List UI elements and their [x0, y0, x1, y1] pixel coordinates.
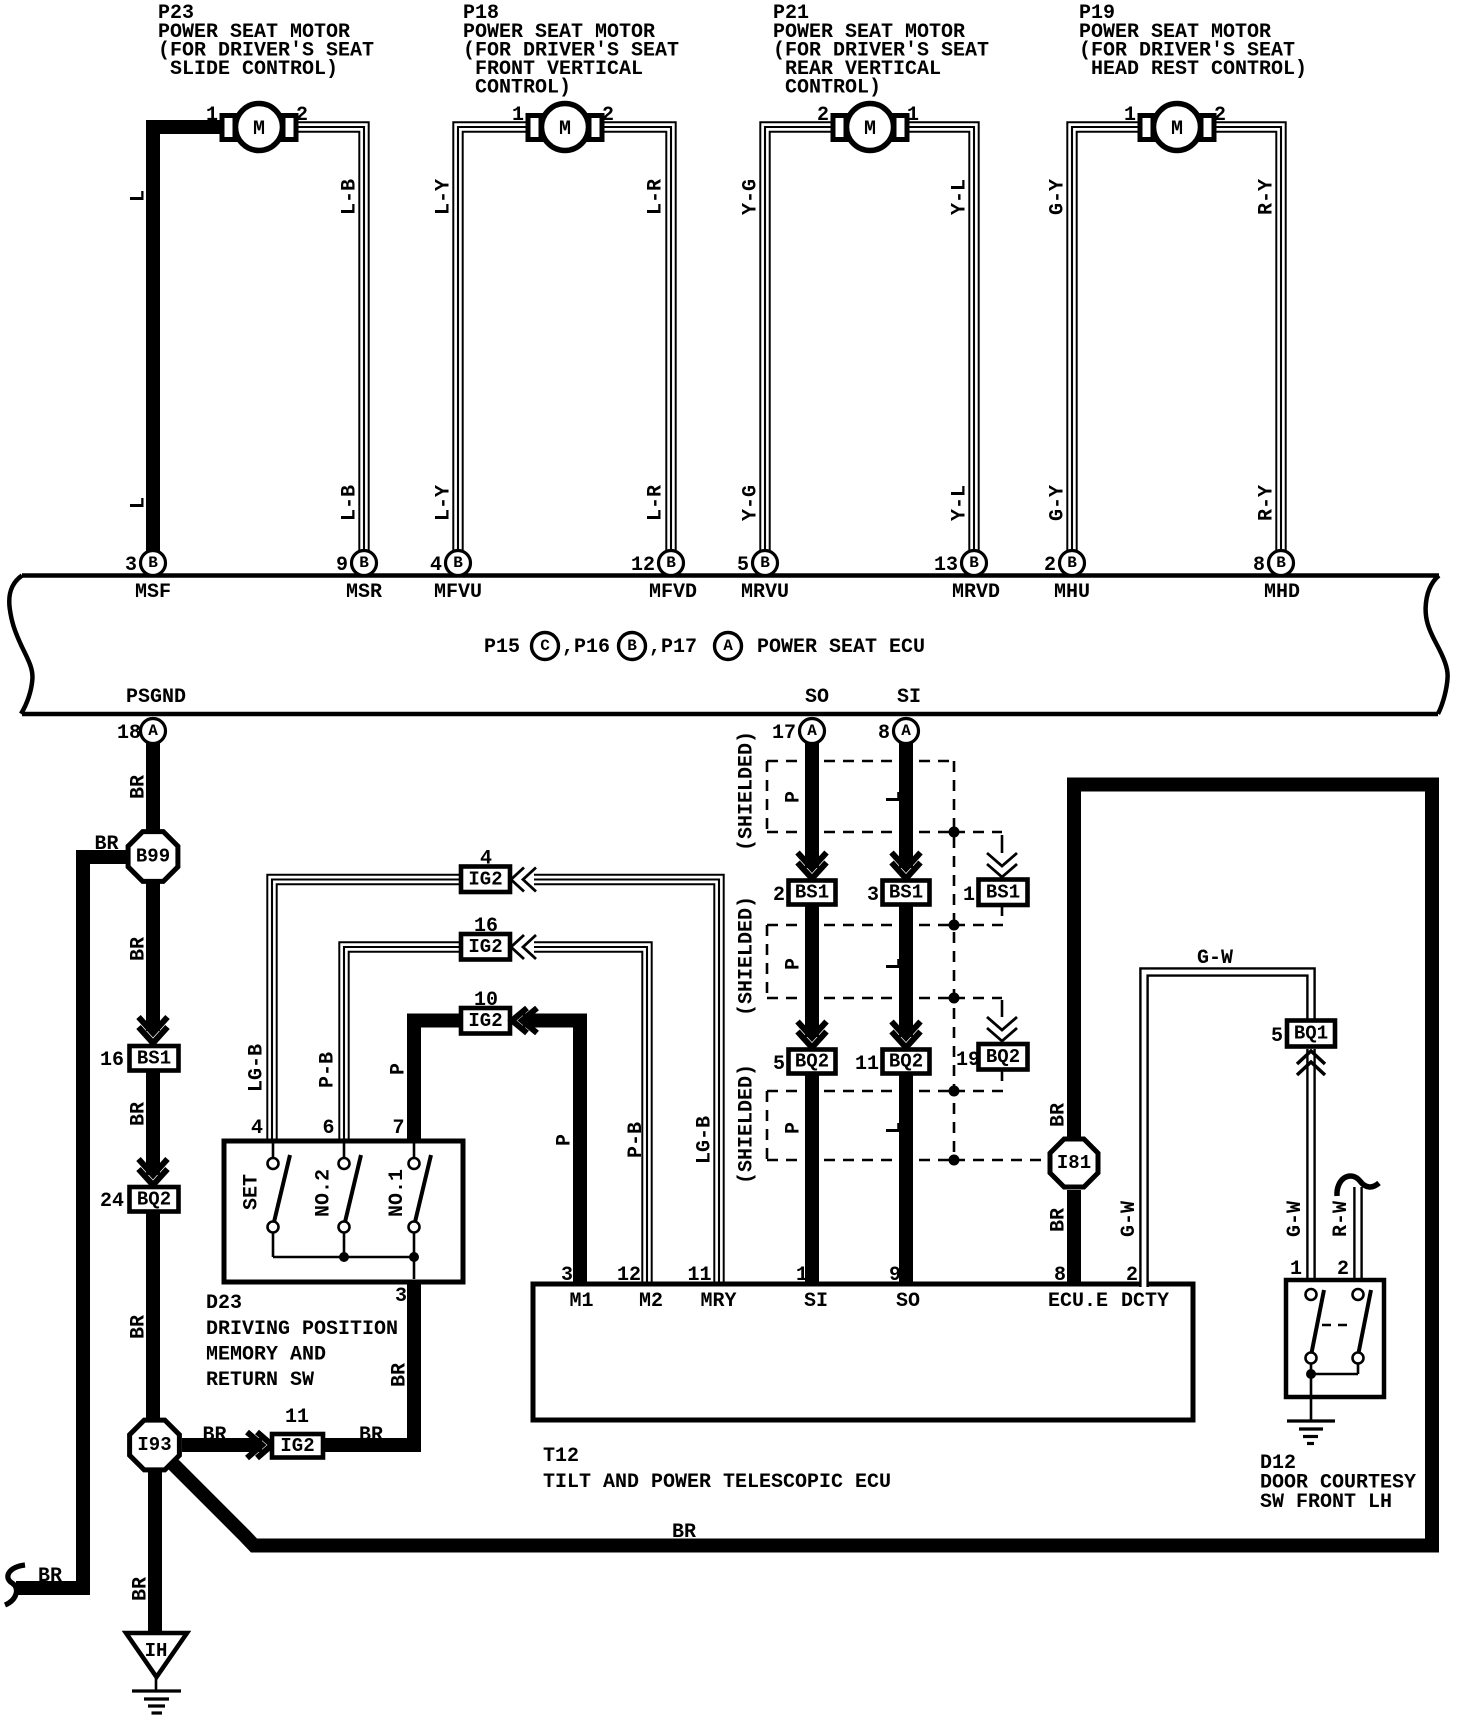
ECU pin 12 MFVD [631, 551, 697, 605]
svg-text:17: 17 [772, 722, 796, 745]
svg-text:5: 5 [1271, 1025, 1283, 1048]
label G-W left [1118, 1201, 1141, 1237]
svg-text:MEMORY AND: MEMORY AND [206, 1344, 326, 1367]
D23 box [224, 1141, 463, 1282]
svg-text:12: 12 [631, 554, 655, 577]
svg-text:BR: BR [130, 1577, 153, 1601]
svg-text:M: M [1171, 118, 1183, 141]
arrow down to BS1-16 [139, 1017, 168, 1043]
svg-text:BQ2: BQ2 [986, 1046, 1020, 1068]
svg-text:2: 2 [1214, 104, 1226, 127]
svg-text:PSGND: PSGND [126, 686, 186, 709]
motor P21 symbol [833, 104, 907, 151]
label BR below I81 [1048, 1208, 1071, 1232]
svg-text:BR: BR [128, 1102, 151, 1126]
svg-text:BR: BR [128, 937, 151, 961]
T12 pin labels [569, 1290, 1169, 1313]
label SHIELDED 1 [736, 731, 759, 851]
wire BR main loop (I93 to I81) [170, 785, 1432, 1546]
svg-text:M: M [864, 118, 876, 141]
wire P-B IG2-16 to D23 pin 6 and T12 M2 [344, 947, 647, 1287]
svg-text:B: B [1276, 554, 1286, 572]
svg-text:SLIDE CONTROL): SLIDE CONTROL) [170, 58, 338, 81]
svg-text:1: 1 [1124, 104, 1136, 127]
label P19 header [1079, 2, 1307, 81]
connector 10 IG2 [461, 989, 510, 1034]
svg-text:R-W: R-W [1330, 1201, 1353, 1237]
label D12 block [1260, 1452, 1416, 1514]
connector 24 BQ2 [100, 1187, 179, 1213]
svg-text:G-W: G-W [1284, 1201, 1307, 1237]
svg-text:1: 1 [206, 104, 218, 127]
label BR 1 [128, 775, 151, 799]
shield dashed line to I81 ground [954, 1159, 1048, 1162]
shield stub dash at y925 [954, 924, 1004, 927]
label BR left of IG2-11 [202, 1424, 226, 1447]
svg-text:SO: SO [896, 1290, 920, 1313]
ECU bottom edge [22, 712, 1438, 717]
arrow down SI to BQ2-11 [892, 1022, 921, 1048]
svg-text:P: P [388, 1063, 411, 1075]
ECU wavy left edge [9, 576, 32, 714]
wire Y-L from motor P21 pin 1 [903, 127, 974, 552]
svg-text:BS1: BS1 [889, 882, 923, 904]
label R-W [1330, 1201, 1353, 1237]
label L-R upper [645, 179, 668, 215]
shield stub dash at y1091 [954, 1090, 1004, 1093]
svg-text:L: L [884, 791, 907, 803]
D23 switch common bus [273, 1257, 414, 1279]
svg-text:IG2: IG2 [468, 1010, 502, 1032]
pin 2 label motor P21 [817, 104, 829, 127]
shield junction dot A [949, 827, 960, 838]
label P-B left [317, 1052, 340, 1088]
arrow down shield to BS1-1 [987, 853, 1017, 877]
svg-text:L-R: L-R [645, 179, 668, 215]
ground IH [126, 1633, 187, 1713]
label BR on pin3 wire [389, 1363, 412, 1387]
connector B99 [128, 832, 178, 882]
svg-text:MHU: MHU [1054, 581, 1090, 604]
ECU pin 8 SI [878, 686, 921, 745]
svg-text:SI: SI [897, 686, 921, 709]
wire P (SO) segment 2 [805, 905, 819, 1038]
svg-text:MSR: MSR [346, 581, 382, 604]
svg-text:G-W: G-W [1197, 947, 1233, 970]
wire R-W to D12 pin 2 [1353, 1187, 1363, 1282]
switch NO.2 in D23 [339, 1143, 362, 1257]
svg-text:BR: BR [359, 1424, 383, 1447]
label P18 header [463, 2, 679, 100]
label BR bottom left [38, 1565, 62, 1588]
svg-text:P: P [783, 1122, 806, 1134]
label BR above I81 [1048, 1103, 1071, 1127]
wire BR IG2-11 to D23 pin 3 [323, 1283, 414, 1445]
arrow down SO to BQ2-5 [798, 1022, 827, 1048]
T12 box [533, 1284, 1193, 1420]
connector 16 BS1 [100, 1046, 179, 1072]
shield dashed box 1 around SO/SI wires [767, 761, 954, 832]
svg-text:BQ2: BQ2 [795, 1051, 829, 1073]
switch 2 in D12 [1353, 1289, 1372, 1364]
label LG-B right [694, 1116, 717, 1164]
svg-text:L-Y: L-Y [433, 179, 456, 215]
svg-text:G-Y: G-Y [1047, 485, 1070, 521]
svg-text:1: 1 [796, 1264, 808, 1287]
svg-text:M: M [559, 118, 571, 141]
label BR branch [94, 833, 118, 856]
svg-text:BS1: BS1 [137, 1047, 171, 1069]
svg-text:16: 16 [100, 1049, 124, 1072]
ECU pin 9 MSR [336, 551, 382, 605]
svg-text:L: L [884, 1122, 907, 1134]
connector I81 [1050, 1139, 1098, 1187]
svg-text:M2: M2 [639, 1290, 663, 1313]
label G-Y lower [1047, 485, 1070, 521]
svg-text:MRY: MRY [700, 1290, 736, 1313]
svg-text:Y-L: Y-L [949, 179, 972, 215]
label P right [554, 1134, 577, 1146]
label SHIELDED 3 [736, 1064, 759, 1184]
connector 3 BS1 [867, 881, 930, 908]
svg-text:RETURN SW: RETURN SW [206, 1369, 314, 1392]
D12 box [1286, 1280, 1384, 1397]
svg-text:I93: I93 [137, 1434, 171, 1456]
svg-text:D23: D23 [206, 1292, 242, 1315]
label pin 3 D23 [395, 1285, 407, 1308]
shield junction dot C [949, 993, 960, 1004]
label P seg1 [783, 791, 806, 803]
svg-text:19: 19 [956, 1049, 980, 1072]
connector 2 BS1 [773, 881, 836, 908]
svg-text:M1: M1 [569, 1290, 593, 1313]
svg-text:9: 9 [889, 1264, 901, 1287]
label L-B upper [339, 179, 362, 215]
T12 pin numbers [561, 1264, 1138, 1287]
connector I93 [130, 1420, 180, 1470]
svg-text:SET: SET [241, 1174, 264, 1210]
svg-text:9: 9 [336, 554, 348, 577]
svg-text:3: 3 [395, 1285, 407, 1308]
shield dashed box 3 [767, 1091, 954, 1160]
motor P19 symbol [1140, 104, 1214, 151]
svg-text:(SHIELDED): (SHIELDED) [736, 896, 759, 1016]
label pin 1 D12 [1290, 1258, 1302, 1281]
shield stub below BQ2-19 [1001, 1071, 1004, 1082]
motor P18 symbol [528, 104, 602, 151]
label Y-G upper [740, 179, 763, 215]
svg-text:G-Y: G-Y [1047, 179, 1070, 215]
svg-text:LG-B: LG-B [246, 1044, 269, 1092]
label NO.1 [386, 1169, 409, 1217]
svg-text:BR: BR [389, 1363, 412, 1387]
svg-text:L-B: L-B [339, 485, 362, 521]
connector 16 IG2 [461, 915, 510, 960]
svg-text:4: 4 [430, 554, 442, 577]
svg-text:B: B [666, 554, 676, 572]
shield junction dot D [949, 1086, 960, 1097]
svg-text:ECU.E: ECU.E [1048, 1290, 1108, 1313]
label L seg1 [884, 791, 907, 803]
wire BR BQ2 to I93 [146, 1212, 160, 1419]
svg-text:IH: IH [145, 1640, 168, 1662]
shield dashed box 2 [767, 925, 954, 998]
svg-text:B: B [760, 554, 770, 572]
pin 1 label motor P23 [206, 104, 218, 127]
wire P (SO) segment 3 [805, 1074, 819, 1288]
ECU pin 4 MFVU [430, 551, 482, 605]
svg-text:C: C [540, 637, 550, 655]
arrow left into IG2-16 [511, 935, 536, 959]
svg-text:4: 4 [480, 848, 492, 871]
svg-text:5: 5 [737, 554, 749, 577]
svg-text:BQ2: BQ2 [889, 1051, 923, 1073]
wire L (SI) segment 2 [899, 905, 913, 1038]
svg-text:8: 8 [878, 722, 890, 745]
wire P IG2-10 to D23 pin 7 and T12 M1 [414, 1021, 580, 1288]
svg-text:L-Y: L-Y [433, 485, 456, 521]
label P23 header [158, 2, 374, 81]
label LG-B left [246, 1044, 269, 1092]
svg-text:HEAD REST CONTROL): HEAD REST CONTROL) [1091, 58, 1307, 81]
svg-text:B: B [359, 554, 369, 572]
svg-text:A: A [723, 637, 733, 655]
wire L (SI) segment 3 [899, 1074, 913, 1288]
arrow down shield to BQ2-19 [987, 1017, 1017, 1041]
label SET [241, 1174, 264, 1210]
wire BR I93 to IG2-11 [182, 1438, 262, 1452]
pin 2 label motor P18 [602, 104, 614, 127]
svg-text:5: 5 [773, 1053, 785, 1076]
arrow left into IG2-4 [511, 868, 536, 892]
wire Y-G from motor P21 pin 2 [765, 127, 837, 552]
label pin 2 D12 [1337, 1258, 1349, 1281]
svg-text:L: L [128, 190, 151, 202]
svg-text:P: P [783, 958, 806, 970]
svg-text:BR: BR [38, 1565, 62, 1588]
junction dot D12 [1306, 1369, 1316, 1379]
svg-text:TILT AND POWER TELESCOPIC ECU: TILT AND POWER TELESCOPIC ECU [543, 1471, 891, 1494]
svg-text:MHD: MHD [1264, 581, 1300, 604]
connector 4 IG2 [461, 848, 510, 893]
svg-text:MFVU: MFVU [434, 581, 482, 604]
label BR loop bottom [672, 1521, 696, 1544]
switch NO.1 in D23 [409, 1143, 432, 1257]
wire BR branch from B99 to page break [16, 857, 128, 1588]
wire L-R from motor P18 pin 2 [598, 127, 671, 552]
svg-text:11: 11 [285, 1406, 309, 1429]
label L lower [128, 497, 151, 509]
svg-text:13: 13 [934, 554, 958, 577]
svg-text:(SHIELDED): (SHIELDED) [736, 731, 759, 851]
svg-text:11: 11 [687, 1264, 711, 1287]
svg-text:CONTROL): CONTROL) [475, 77, 571, 100]
wire R-Y from motor P19 pin 2 [1210, 127, 1281, 552]
arrow down to BQ2-24 [139, 1159, 168, 1185]
ECU top edge [22, 573, 1439, 578]
svg-text:SW FRONT LH: SW FRONT LH [1260, 1491, 1392, 1514]
svg-text:16: 16 [474, 915, 498, 938]
label Y-G lower [740, 485, 763, 521]
svg-text:P-B: P-B [317, 1052, 340, 1088]
arrow down SO to BS1-2 [798, 853, 827, 879]
label P seg3 [783, 1122, 806, 1134]
svg-text:A: A [901, 722, 911, 740]
wire BR BS1 to BQ2 [146, 1071, 160, 1175]
shield branch dash to BQ2 pin 19 [954, 998, 1002, 1017]
svg-text:POWER SEAT ECU: POWER SEAT ECU [757, 636, 925, 659]
label BR 2 [128, 937, 151, 961]
svg-text:BR: BR [202, 1424, 226, 1447]
svg-text:MRVU: MRVU [741, 581, 789, 604]
svg-text:1: 1 [1290, 1258, 1302, 1281]
svg-text:Y-L: Y-L [949, 485, 972, 521]
pin 1 label motor P19 [1124, 104, 1136, 127]
svg-text:7: 7 [392, 1117, 404, 1140]
svg-text:BR: BR [128, 1315, 151, 1339]
label BR to IH [130, 1577, 153, 1601]
svg-text:2: 2 [602, 104, 614, 127]
label BR 3 [128, 1102, 151, 1126]
svg-text:BR: BR [128, 775, 151, 799]
svg-text:A: A [807, 722, 817, 740]
svg-text:P15: P15 [484, 636, 520, 659]
wire L-Y from motor P18 pin 1 [458, 127, 532, 552]
pin 1 label motor P18 [512, 104, 524, 127]
svg-text:BR: BR [1048, 1103, 1071, 1127]
connector 11 BQ2 [855, 1050, 930, 1077]
wire P (SO) segment 1 [805, 742, 819, 868]
label L-Y lower [433, 485, 456, 521]
arrow up into BQ1 [1297, 1051, 1325, 1075]
svg-text:L: L [128, 497, 151, 509]
switch 1 in D12 [1306, 1289, 1325, 1364]
switch SET in D23 [268, 1143, 291, 1257]
svg-text:L-R: L-R [645, 485, 668, 521]
svg-text:LG-B: LG-B [694, 1116, 717, 1164]
svg-text:MRVD: MRVD [952, 581, 1000, 604]
label L-Y upper [433, 179, 456, 215]
svg-text:24: 24 [100, 1190, 124, 1213]
arrow down SI to BS1-3 [892, 853, 921, 879]
svg-text:IG2: IG2 [468, 936, 502, 958]
ECU pin 3 MSF [125, 551, 171, 605]
connector 5 BQ2 [773, 1050, 836, 1077]
svg-text:SI: SI [804, 1290, 828, 1313]
shield drain dashed vertical [953, 761, 956, 1160]
ECU title P15 P16 P17 POWER SEAT ECU [484, 633, 925, 660]
wire L-B from motor P23 pin 2 [292, 127, 364, 552]
svg-text:BR: BR [672, 1521, 696, 1544]
ECU pin 5 MRVU [737, 551, 789, 605]
wire G-W from T12 DCTY to BQ1 [1144, 972, 1311, 1287]
wire L from motor P23 pin 1 (thick) [153, 127, 226, 552]
label D23 block [206, 1292, 398, 1392]
svg-text:I81: I81 [1057, 1152, 1091, 1174]
ECU pin 17 SO [772, 686, 829, 745]
svg-text:DRIVING POSITION: DRIVING POSITION [206, 1318, 398, 1341]
svg-text:R-Y: R-Y [1256, 179, 1279, 215]
svg-text:,P17: ,P17 [649, 636, 697, 659]
svg-text:6: 6 [322, 1117, 334, 1140]
shield stub below BS1-1 [1001, 906, 1004, 916]
label SHIELDED 2 [736, 896, 759, 1016]
label NO.2 [313, 1169, 336, 1217]
svg-text:1: 1 [907, 104, 919, 127]
svg-text:11: 11 [855, 1053, 879, 1076]
ECU wavy right edge [1426, 576, 1448, 714]
svg-text:8: 8 [1054, 1264, 1066, 1287]
label pin 6 D23 [322, 1117, 334, 1140]
label G-Y upper [1047, 179, 1070, 215]
label G-W top [1197, 947, 1233, 970]
svg-text:2: 2 [1044, 554, 1056, 577]
svg-text:A: A [148, 722, 158, 740]
shield junction dot B [949, 920, 960, 931]
ECU pin 13 MRVD [934, 551, 1000, 605]
label R-Y upper [1256, 179, 1279, 215]
label R-Y lower [1256, 485, 1279, 521]
junction dot NO.1 [409, 1252, 419, 1262]
svg-text:2: 2 [1126, 1264, 1138, 1287]
label L seg3 [884, 1122, 907, 1134]
svg-text:T12: T12 [543, 1445, 579, 1468]
svg-text:B: B [627, 637, 637, 655]
label pin 7 D23 [392, 1117, 404, 1140]
ECU pin 2 MHU [1044, 551, 1090, 605]
D12 bottom bus [1311, 1364, 1358, 1422]
svg-text:L-B: L-B [339, 179, 362, 215]
svg-text:CONTROL): CONTROL) [785, 77, 881, 100]
svg-text:B: B [148, 554, 158, 572]
svg-text:1: 1 [963, 884, 975, 907]
svg-text:8: 8 [1253, 554, 1265, 577]
svg-text:MSF: MSF [135, 581, 171, 604]
shield junction dot E [949, 1155, 960, 1166]
svg-text:2: 2 [773, 884, 785, 907]
ECU pin 18 PSGND [117, 686, 186, 745]
page break squiggle R-W [1337, 1176, 1379, 1196]
label BR 4 [128, 1315, 151, 1339]
wire BR I81 to T12 ECU.E [1067, 1190, 1081, 1287]
wire G-W BQ1 to D12 pin 1 [1306, 1049, 1316, 1282]
connector 1 BS1 [963, 880, 1028, 908]
svg-text:B: B [1067, 554, 1077, 572]
label L upper [128, 190, 151, 202]
connector 5 BQ1 [1271, 1021, 1335, 1049]
wire BR PSGND to B99 [146, 742, 160, 831]
wire BR I93 to IH ground [148, 1472, 162, 1634]
svg-text:P-B: P-B [625, 1122, 648, 1158]
svg-text:NO.2: NO.2 [313, 1169, 336, 1217]
ECU pin 8 MHD [1253, 551, 1300, 605]
wire G-Y from motor P19 pin 1 [1072, 127, 1144, 552]
svg-text:NO.1: NO.1 [386, 1169, 409, 1217]
svg-text:BQ2: BQ2 [137, 1188, 171, 1210]
svg-text:,P16: ,P16 [562, 636, 610, 659]
svg-text:(SHIELDED): (SHIELDED) [736, 1064, 759, 1184]
svg-text:P: P [783, 791, 806, 803]
label L-R lower [645, 485, 668, 521]
ground below D12 [1287, 1421, 1335, 1444]
pin 1 label motor P21 [907, 104, 919, 127]
connector 11 IG2 [272, 1406, 323, 1458]
wire BR B99 to BS1 [146, 883, 160, 1031]
svg-text:M: M [253, 118, 265, 141]
svg-text:DCTY: DCTY [1121, 1290, 1169, 1313]
label L-B lower [339, 485, 362, 521]
svg-text:B: B [453, 554, 463, 572]
